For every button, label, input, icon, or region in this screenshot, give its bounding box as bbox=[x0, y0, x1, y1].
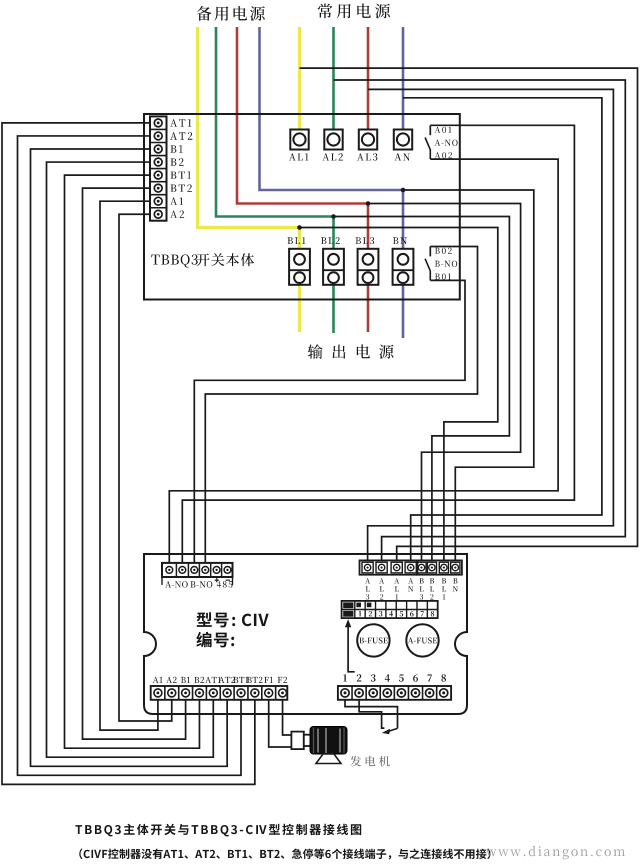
wire BN junction to controller B-N bbox=[403, 190, 534, 560]
label B2 bbox=[194, 677, 204, 683]
label AT1 bbox=[170, 119, 191, 126]
label 输出电源 bbox=[308, 344, 394, 359]
normal supply wire green bbox=[332, 27, 335, 130]
wire BL2 junction to controller B-L2 bbox=[334, 217, 510, 561]
label AL1 bbox=[289, 153, 309, 160]
label 常用电源 bbox=[318, 4, 390, 19]
label 备用电源 bbox=[197, 6, 265, 21]
backup supply wire yellow bbox=[198, 27, 300, 228]
probe plug arrow bbox=[388, 728, 398, 731]
label A2 bbox=[170, 211, 184, 218]
label A2 bbox=[166, 677, 177, 683]
caption line 1 bbox=[75, 824, 253, 837]
caption line 2 bbox=[79, 849, 90, 860]
output wire blue bbox=[402, 190, 405, 338]
DIP pointer arrow bbox=[348, 624, 355, 672]
label BT1 bbox=[233, 677, 248, 683]
controller strip A1 A2 B1 B2 AT1 AT2 BT1 BT2 F1 F2 bbox=[151, 686, 288, 700]
labels A L3..B N bbox=[365, 578, 370, 583]
wire B2 loop to controller AT1 bbox=[47, 162, 214, 757]
controller strip A-L3..BN bbox=[360, 560, 418, 574]
watermark www.diangon.com bbox=[486, 846, 625, 859]
wire AL3 tap to controller A-L3 bbox=[368, 89, 614, 560]
label TBBQ3开关本体 bbox=[151, 254, 197, 267]
normal supply wire red bbox=[367, 27, 370, 130]
generator base bbox=[316, 754, 341, 764]
label BT2 bbox=[247, 677, 263, 683]
normal supply wire blue bbox=[402, 27, 405, 130]
generator motor body bbox=[310, 727, 347, 755]
backup supply wire red bbox=[237, 27, 368, 204]
DIP switch block bbox=[342, 601, 438, 618]
wire F2 to generator plug bbox=[283, 700, 292, 735]
label AT2 bbox=[170, 132, 192, 140]
aux contact B02 / B-NO / B01 bbox=[429, 247, 431, 257]
controller strip A-NO B-NO 485 bbox=[162, 563, 233, 577]
wire B02 to B-NO strip bbox=[205, 247, 477, 563]
label AT1 bbox=[205, 677, 221, 683]
junction dots on BL columns bbox=[297, 225, 302, 230]
wire B01 to B-NO strip bbox=[194, 280, 465, 563]
TBBQ3 switch body box bbox=[144, 114, 460, 300]
wire A2 loop to controller A2 bbox=[119, 214, 172, 721]
normal supply wire yellow bbox=[298, 27, 301, 130]
label AL3 bbox=[357, 153, 377, 160]
aux contact A01 / A-NO / A02 bbox=[429, 125, 431, 135]
controller strip 1-8 bbox=[338, 686, 451, 700]
label B1 bbox=[181, 677, 190, 683]
wire terminal1 probe plug bbox=[345, 700, 398, 729]
label A-NO B-NO 485 bbox=[165, 581, 188, 588]
label 发电机 bbox=[350, 756, 390, 767]
label 型号: CIV bbox=[197, 612, 229, 627]
backup supply wire blue bbox=[260, 27, 404, 190]
wire AL1 tap to controller A-L1 bbox=[300, 68, 638, 560]
wire BL1 junction to controller B-L1 bbox=[300, 228, 498, 561]
fuse B-FUSE bbox=[357, 624, 389, 656]
backup supply wire green bbox=[216, 27, 334, 217]
label BL3 bbox=[356, 237, 375, 244]
output wire yellow bbox=[298, 228, 301, 333]
wire BT1 loop to controller B2 bbox=[65, 175, 200, 748]
label BT2 bbox=[171, 184, 192, 191]
BL1 BL2 BL3 BN output terminals bbox=[289, 249, 310, 285]
wire AT2 loop to controller BT1 bbox=[18, 136, 242, 775]
label A1 bbox=[153, 677, 163, 683]
label B1 bbox=[171, 145, 183, 152]
label AT2 bbox=[219, 677, 236, 683]
label B2 bbox=[171, 158, 184, 166]
wire A02 to A-NO strip bbox=[169, 159, 558, 563]
output wire green bbox=[332, 217, 335, 334]
terminal numbers 1-8 bbox=[343, 674, 347, 681]
label BT1 bbox=[171, 171, 192, 178]
label F2 bbox=[278, 677, 287, 683]
AL1 AL2 AL3 AN input terminals bbox=[290, 130, 308, 150]
wire B1 loop to controller AT2 bbox=[31, 149, 228, 766]
label AL2 bbox=[322, 153, 343, 160]
label BL1 bbox=[288, 237, 306, 244]
left terminal strip AT1 AT2 B1 B2 BT1 BT2 A1 A2 bbox=[150, 116, 167, 220]
label A1 bbox=[170, 198, 183, 205]
wire A01 to A-NO strip bbox=[182, 125, 574, 563]
label BL2 bbox=[321, 237, 340, 244]
fuse A-FUSE bbox=[406, 624, 438, 656]
wire AL2 tap to controller A-L2 bbox=[334, 80, 626, 560]
wire AT1 loop to controller BT2 bbox=[2, 123, 255, 785]
wire A1 loop to controller A1 bbox=[100, 201, 158, 730]
label F1 bbox=[264, 677, 273, 683]
DIP position numbers 1-8 bbox=[359, 611, 362, 616]
output wire red bbox=[367, 204, 370, 333]
label AN bbox=[395, 153, 411, 160]
controller box outline with side notches bbox=[144, 554, 467, 714]
wire terminal2 probe jack bbox=[359, 700, 384, 728]
wire F1 to generator plug bbox=[269, 700, 292, 747]
label 编号: bbox=[196, 632, 234, 648]
label BN bbox=[393, 237, 407, 244]
wire BT2 loop to controller B1 bbox=[83, 188, 186, 739]
wire BL3 junction to controller B-L3 bbox=[368, 204, 521, 561]
generator plug bbox=[291, 732, 303, 750]
wire AN tap to controller A-N bbox=[403, 98, 602, 561]
